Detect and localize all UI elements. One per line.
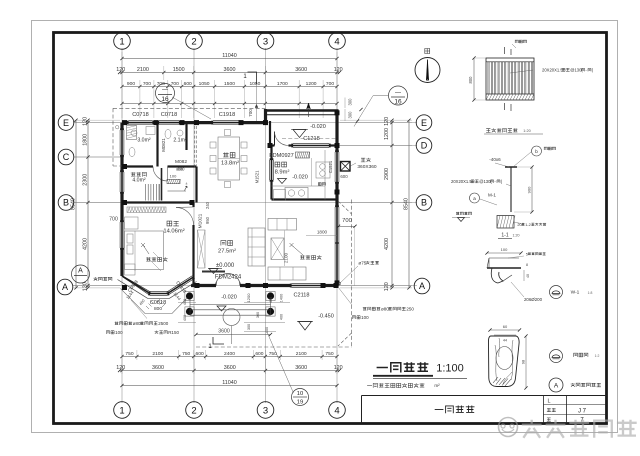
entry double door leaves [216,274,240,286]
yard flue riser arrow [307,103,311,109]
kitchen window C1218 [293,143,329,145]
bay window southwest diagonal left [121,275,151,292]
svg-text:3600: 3600 [152,365,164,371]
svg-text:R150: R150 [168,330,179,335]
svg-text:1:2: 1:2 [595,354,600,358]
fan position living [290,243,304,255]
eave lamp note [155,331,159,334]
fan position bedroom [141,243,149,254]
south outdoor level mark [299,322,312,331]
porch round columns [186,292,193,299]
svg-text:2500: 2500 [158,321,169,326]
svg-text:1500: 1500 [224,81,235,87]
handrail detail dims [490,329,520,331]
bay window flat sill C0818 [150,291,168,293]
living room tv cabinet [271,238,284,260]
svg-text:600: 600 [196,351,204,357]
chimney label [361,158,366,162]
svg-text:1400: 1400 [280,294,284,302]
svg-text:700: 700 [143,81,151,87]
left dim total 8540 [75,120,77,288]
svg-text:M082: M082 [175,159,187,165]
svg-text:A: A [419,281,425,291]
svg-text:300: 300 [256,312,260,318]
svg-text:-40x6: -40x6 [489,157,501,162]
svg-text:-0.020: -0.020 [292,175,308,181]
room label storage [131,172,136,176]
svg-text:M-1: M-1 [488,193,496,198]
window C1918 [213,120,241,122]
svg-text:700: 700 [326,81,334,87]
svg-text:1:20: 1:20 [513,234,520,238]
svg-text:240: 240 [205,201,210,209]
bay outer sill lines [118,280,197,299]
staircase divider wall [161,168,163,201]
svg-text:2100: 2100 [152,351,163,357]
svg-text:120: 120 [82,282,88,291]
svg-text:120: 120 [334,365,343,371]
top dim total 11040 [122,58,337,60]
svg-text:2900: 2900 [384,168,390,180]
svg-text:950: 950 [205,216,210,224]
svg-text:1-2: 1-2 [525,223,531,227]
interior wall B axis bedroom north [122,201,194,203]
ref circle b handrail [550,350,563,363]
svg-text:120: 120 [334,67,343,73]
horizontal grid line A [73,285,417,287]
svg-text:3.0m²: 3.0m² [137,138,151,144]
railing elevation base hatch [486,94,489,100]
bedroom east wall with door M1021 [192,203,194,208]
svg-text:ø80: ø80 [381,307,389,312]
svg-text:C1218: C1218 [303,136,319,142]
svg-text:100: 100 [170,174,177,179]
svg-text:13.8m²: 13.8m² [221,161,239,167]
svg-text:100: 100 [115,330,123,335]
bathroom divider wall [156,123,158,167]
svg-text:2: 2 [191,36,196,47]
columns left wall and B axis [122,164,127,169]
door leaf hatch piece kitchen [296,152,310,158]
svg-text:8.9m²: 8.9m² [275,170,290,176]
svg-text:120: 120 [384,282,390,291]
staircase treads lower flight [145,184,147,201]
hall open edge dashed [194,126,196,168]
window C2118 south [292,283,322,285]
kitchen west wall pass-through window [269,160,271,180]
yard east wall upper right [335,110,338,146]
svg-text:1050: 1050 [249,81,260,87]
roof overhang dashed east [351,200,353,348]
bathroom2 east wall [185,123,187,150]
svg-text:FDM2424: FDM2424 [215,275,242,281]
svg-text:2100: 2100 [137,67,149,73]
railing handrail label [515,40,518,43]
railing centerline marks [504,47,506,54]
interior wall bathrooms south y166 [122,165,153,167]
svg-text:M1021: M1021 [198,213,204,228]
svg-text:120: 120 [384,117,390,126]
wood handrail detail shape [488,336,519,387]
svg-text:800: 800 [154,306,162,312]
svg-text:ø75: ø75 [358,261,366,266]
east wall kitchen section [335,146,338,153]
svg-text:20X20X1.5: 20X20X1.5 [451,179,472,184]
wall pier between C0718s [153,121,160,124]
kitchen entry door FDM0927 gap and leaf [274,132,276,146]
svg-text:3: 3 [263,36,268,47]
room label bedroom [167,221,172,226]
handrail 98 dim [525,336,527,388]
svg-text:2.1m²: 2.1m² [173,138,187,144]
west wall storage section [120,168,123,172]
right dim chain inner [391,120,393,288]
south wall A axis segments [191,284,216,287]
svg-text:700: 700 [342,218,352,224]
roof hip dashes [338,201,352,214]
svg-text:3600: 3600 [224,67,236,73]
window east living room [334,207,336,281]
svg-text:2300: 2300 [82,174,88,186]
svg-text:L: L [547,399,550,405]
terrace level mark yard [293,130,306,138]
bedroom wardrobe hatch [127,207,166,213]
svg-text:20X20X1.5: 20X20X1.5 [542,68,563,73]
north wall E axis west part [122,121,129,124]
north wall E solid 241-265 [241,121,266,124]
svg-text:4200: 4200 [384,238,390,250]
sill ornament west [116,126,119,129]
svg-text:A: A [78,268,83,275]
svg-text:600: 600 [340,174,348,179]
right extension lines [340,119,412,121]
svg-text:1500: 1500 [173,67,185,73]
svg-text:FDM0927: FDM0927 [269,153,294,159]
svg-text:4: 4 [334,36,339,47]
roof overhang dashed top left [113,107,266,109]
svg-text:D: D [421,141,428,151]
svg-text:98: 98 [521,359,526,364]
staircase landing line [168,190,187,192]
svg-text:-0.020: -0.020 [221,295,237,301]
svg-text:8540: 8540 [403,198,409,210]
svg-text:1800: 1800 [317,230,328,235]
sill ref circle a [550,286,563,299]
svg-text:1800: 1800 [82,134,88,146]
axis bubbles bottom [114,402,131,419]
ac hole note left [115,322,119,325]
kitchen south wall [272,198,338,200]
svg-text:750: 750 [325,351,333,357]
kitchen counter and stove [272,185,326,187]
svg-text:1-1: 1-1 [501,233,508,239]
svg-text:3600: 3600 [295,365,307,371]
plan area note [367,385,372,387]
svg-text:460: 460 [269,297,273,303]
columns yard and kitchen [335,110,340,115]
north step wall vertical at x265 [264,109,267,124]
svg-text:60: 60 [503,324,508,329]
window rail note left [94,277,98,281]
bottom dim chain mid row [120,370,340,372]
porch level mark [217,306,226,311]
svg-text:460: 460 [183,299,187,305]
svg-text:B: B [421,198,427,208]
sill detail W-1 [487,267,521,269]
railing 800 dim [473,58,475,100]
svg-text:1:100: 1:100 [436,363,464,375]
chimney block outside east wall [341,162,351,172]
axis bubbles left [58,115,74,131]
svg-text:±: ± [186,182,188,186]
stair hall east wall x196 lower [195,167,197,203]
svg-text:600: 600 [255,351,263,357]
ref circle A rail detail [549,378,563,392]
svg-text:1200: 1200 [306,81,317,87]
svg-text:16: 16 [161,96,169,103]
railing elevation detail [486,58,534,100]
svg-text:2: 2 [191,405,196,416]
kitchen north wall D axis [270,144,275,146]
svg-text:A: A [62,282,68,292]
detail ref circle 16 left [156,84,175,103]
watermark text [522,420,542,438]
svg-text:4200: 4200 [82,238,88,250]
kitchen east counter [324,150,326,186]
svg-text:M1521: M1521 [255,170,260,183]
window west bathroom [119,130,121,155]
svg-text:3600: 3600 [295,67,307,73]
svg-text:C0718: C0718 [132,112,148,118]
west wall bathroom section [120,123,123,130]
top dim chain mid row [120,72,340,74]
svg-text:120: 120 [116,365,125,371]
horizontal grid line D [337,145,417,147]
svg-text:1050: 1050 [199,81,210,87]
left extension lines [73,119,120,121]
svg-text:±0.000: ±0.000 [216,263,235,269]
title block table [543,396,545,424]
svg-text:400: 400 [265,327,269,333]
window C0718 left [129,120,153,122]
svg-text:100: 100 [501,247,508,252]
room label kitchen [275,162,280,167]
svg-text:750: 750 [182,351,190,357]
svg-text:E: E [421,118,427,128]
svg-text:1200: 1200 [246,293,251,303]
window west storage [119,172,121,192]
room label living [221,241,226,246]
svg-text:2100: 2100 [296,351,307,357]
svg-text:—: — [162,88,168,94]
dining table and chairs [218,137,240,180]
svg-text:40: 40 [526,274,530,278]
axis bubbles top [114,33,131,50]
svg-text:400: 400 [183,315,187,321]
svg-text:250: 250 [406,307,414,312]
svg-text:m²: m² [434,383,440,388]
vertical grid lines 1-4 [121,48,123,403]
sill detail dims [487,252,521,254]
svg-text:5: 5 [526,252,528,256]
svg-text:800: 800 [468,76,473,84]
svg-text:8: 8 [526,263,528,267]
tv cabinet against wall2 [198,230,206,268]
west wall bedroom section [120,203,123,223]
bathroom1 fixtures [131,130,137,136]
section flag circle left [72,265,90,283]
svg-text:300: 300 [348,111,353,119]
svg-text:300: 300 [247,324,251,330]
section 900 dim [531,167,533,212]
kitchen west wall [270,146,272,161]
svg-text:ø80: ø80 [133,321,141,326]
svg-text:-0.450: -0.450 [318,314,334,320]
svg-text:700: 700 [248,109,253,117]
living room sofa top row [268,219,297,231]
bottom dim chain detail row [122,356,337,358]
svg-text:4.0m²: 4.0m² [132,178,146,184]
svg-text:C: C [63,152,70,162]
svg-text:1700: 1700 [277,81,288,87]
bedroom bed [125,231,164,270]
wall pier E axis middle [179,121,213,124]
right dim total 8540 [408,120,410,288]
svg-text:-0.020: -0.020 [310,124,326,130]
living room level mark [209,269,218,274]
svg-text:750: 750 [125,351,133,357]
columns right wall [335,190,340,195]
north parapet wall upper right [266,109,339,112]
svg-text:11040: 11040 [222,53,237,59]
handrail ref circle b small [532,146,542,156]
svg-text:M0821: M0821 [161,138,166,152]
svg-text:14.06m²: 14.06m² [163,229,184,235]
entry door FDM2424 gap [240,284,292,287]
bottom dim total 11040 [122,385,337,387]
svg-text:1: 1 [119,405,124,416]
axis E dashed through yard [282,138,337,140]
svg-text:900: 900 [527,186,532,193]
window east kitchen [334,152,336,182]
door M082 in bathroom wall [153,167,168,182]
svg-text:C1918: C1918 [219,112,235,118]
svg-text:A: A [554,383,559,390]
window west bedroom [119,222,121,248]
top dim chain detail row [122,86,337,88]
svg-text:—: — [395,90,401,96]
title block band [362,395,607,397]
svg-text:600: 600 [184,81,192,87]
bathroom1 shower hatch [127,126,137,140]
svg-text:C0718: C0718 [161,112,177,118]
svg-text:360X360: 360X360 [357,164,377,170]
kitchen level mark [278,179,287,184]
section floor block hatched [497,216,514,229]
svg-text:3600: 3600 [224,365,236,371]
svg-text:1: 1 [119,36,124,47]
section 1-1 detail baluster [510,167,512,212]
porch feature circle [223,309,240,326]
bottom extension lines [121,350,123,360]
columns south wall [122,285,127,290]
svg-text:19: 19 [297,400,303,406]
svg-text:2100: 2100 [284,252,289,263]
watermark logo [499,418,640,438]
svg-text:27.5m²: 27.5m² [218,249,236,255]
svg-text:100: 100 [361,315,369,320]
svg-text:E: E [63,118,69,128]
svg-text:206Ø200: 206Ø200 [524,297,543,302]
svg-text:120: 120 [82,117,88,126]
section mark 1 bottom [213,337,224,344]
svg-text:400: 400 [280,314,284,320]
svg-text:2400: 2400 [224,351,235,357]
svg-text:8540: 8540 [70,198,76,210]
svg-text:700: 700 [109,217,118,223]
floor finish label [456,212,459,215]
dining east wall to yard [269,121,271,146]
svg-text:16: 16 [394,99,402,106]
roof overhang dashed west [112,108,114,166]
section mark 1 top [248,72,257,84]
stair detail ref circle 10-19 [292,389,309,406]
detail circle a M-1 [470,193,480,203]
svg-text:3: 3 [263,405,268,416]
window C0718 right [159,120,179,122]
svg-text:B: B [63,198,69,208]
north arrow compass [415,58,440,83]
svg-text:1:20: 1:20 [523,129,530,133]
svg-text:800: 800 [178,167,186,172]
staircase up arrow [185,186,188,191]
svg-text:120: 120 [116,67,125,73]
columns along north wall [122,120,127,125]
svg-text:W-1: W-1 [571,290,580,296]
living room sofa column [248,228,265,266]
plan title main [377,367,388,369]
bay window diagonal right [167,276,193,292]
staircase door leaf hatch piece [167,179,180,183]
title block text [435,409,444,411]
svg-text:4: 4 [334,405,339,416]
svg-text:1200: 1200 [384,128,390,140]
top dim line extra [122,103,337,105]
porch steps [190,304,271,306]
svg-text:11040: 11040 [222,380,237,386]
kitchen sink [316,162,330,178]
horizontal grid line C [73,156,124,158]
svg-text:1:8: 1:8 [588,291,593,295]
bay ground trapezoid [121,289,192,314]
svg-text:C2118: C2118 [293,293,309,299]
bathroom2 fixtures [165,129,171,138]
horizontal grid line E [73,122,417,124]
horizontal grid line B [73,202,417,204]
drawing sheet frame [54,33,607,424]
svg-text:3600: 3600 [218,329,230,335]
top extension lines [121,80,123,118]
living room sofa bottom row [268,267,306,280]
detail ref circle 16 right [389,86,408,105]
railing elevation caption [486,129,491,133]
svg-text:900: 900 [127,81,135,87]
room label dining [223,152,229,157]
svg-text:300: 300 [348,98,353,106]
svg-text:10: 10 [297,391,303,397]
svg-text:44: 44 [503,339,507,343]
svg-text:J 7: J 7 [578,409,587,415]
